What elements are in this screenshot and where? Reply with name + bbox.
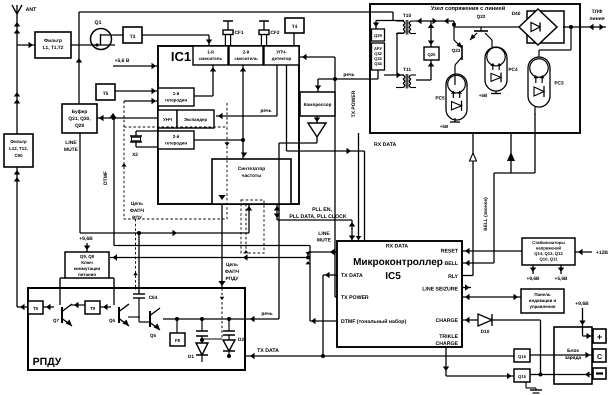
svg-text:линия: линия bbox=[589, 16, 604, 22]
svg-text:Буфер: Буфер bbox=[72, 109, 88, 115]
svg-text:IC1: IC1 bbox=[171, 49, 191, 64]
svg-text:BELL (звонок): BELL (звонок) bbox=[483, 197, 489, 231]
svg-text:частоты: частоты bbox=[242, 174, 262, 179]
svg-text:D1: D1 bbox=[188, 354, 194, 360]
svg-text:речь: речь bbox=[260, 109, 271, 114]
svg-text:T9: T9 bbox=[90, 306, 96, 311]
svg-text:Ключ: Ключ bbox=[81, 260, 93, 265]
svg-text:CHARGE: CHARGE bbox=[436, 341, 459, 347]
svg-text:CF1: CF1 bbox=[234, 30, 243, 36]
svg-text:T4: T4 bbox=[292, 24, 298, 30]
svg-text:X2: X2 bbox=[132, 152, 138, 158]
svg-text:смеситель: смеситель bbox=[234, 56, 258, 61]
svg-text:Q15: Q15 bbox=[518, 374, 527, 379]
svg-text:LINE: LINE bbox=[65, 140, 77, 146]
svg-text:РПУ: РПУ bbox=[132, 215, 143, 221]
svg-text:Q29: Q29 bbox=[374, 33, 383, 38]
svg-text:DTMF: DTMF bbox=[103, 171, 109, 185]
svg-text:управления: управления bbox=[530, 304, 556, 309]
svg-text:УПЧ-: УПЧ- bbox=[276, 50, 287, 55]
svg-text:РПДУ: РПДУ bbox=[33, 356, 62, 368]
svg-text:+9,6В: +9,6В bbox=[527, 276, 540, 282]
svg-text:+12В: +12В bbox=[596, 250, 608, 256]
svg-text:Q14, Q13, Q12: Q14, Q13, Q12 bbox=[534, 251, 563, 256]
svg-text:L12, T12,: L12, T12, bbox=[9, 146, 28, 151]
svg-text:Микроконтроллер: Микроконтроллер bbox=[353, 257, 443, 268]
svg-text:D10: D10 bbox=[481, 329, 490, 335]
svg-text:гетеродин: гетеродин bbox=[165, 141, 188, 146]
svg-text:Q7: Q7 bbox=[53, 318, 60, 323]
svg-text:1-й: 1-й bbox=[173, 91, 180, 96]
svg-text:Q22: Q22 bbox=[477, 14, 486, 19]
svg-text:LINE: LINE bbox=[318, 231, 330, 237]
svg-text:Стабилизаторы: Стабилизаторы bbox=[532, 240, 565, 245]
svg-text:+9,6В: +9,6В bbox=[79, 236, 93, 242]
svg-text:DTMF (тональный набор): DTMF (тональный набор) bbox=[341, 319, 406, 325]
svg-text:TX POWER: TX POWER bbox=[341, 295, 369, 301]
svg-text:коммутации: коммутации bbox=[74, 266, 101, 271]
svg-text:речь: речь bbox=[343, 73, 354, 78]
svg-text:ФАПЧ: ФАПЧ bbox=[130, 208, 145, 214]
svg-text:Q25: Q25 bbox=[428, 52, 437, 57]
svg-text:ANT: ANT bbox=[26, 7, 37, 13]
svg-text:PLL EN,: PLL EN, bbox=[312, 207, 332, 213]
svg-text:речь: речь bbox=[261, 312, 272, 317]
svg-text:PLL DATA, PLL CLOCK: PLL DATA, PLL CLOCK bbox=[289, 214, 347, 220]
svg-text:Q16: Q16 bbox=[518, 354, 527, 359]
svg-text:T10: T10 bbox=[403, 13, 412, 19]
svg-text:PC5: PC5 bbox=[435, 95, 445, 101]
svg-text:+5В: +5В bbox=[479, 93, 488, 98]
svg-text:Q6: Q6 bbox=[109, 318, 116, 323]
svg-text:Блок: Блок bbox=[567, 348, 579, 354]
svg-text:+9,6В: +9,6В bbox=[575, 301, 589, 307]
svg-text:смеситель: смеситель bbox=[199, 56, 223, 61]
svg-text:Фильтр: Фильтр bbox=[44, 38, 62, 44]
svg-text:TX DATA: TX DATA bbox=[257, 348, 279, 354]
svg-text:Q10, Q11: Q10, Q11 bbox=[540, 257, 559, 262]
svg-text:УНЧ: УНЧ bbox=[163, 117, 172, 122]
svg-text:D2: D2 bbox=[238, 337, 244, 343]
svg-text:+5,6 В: +5,6 В bbox=[115, 58, 130, 64]
svg-text:TX DATA: TX DATA bbox=[341, 273, 363, 279]
svg-text:Цепь: Цепь bbox=[131, 201, 143, 207]
svg-text:RX DATA: RX DATA bbox=[374, 142, 397, 148]
svg-text:Фильтр: Фильтр bbox=[10, 139, 27, 144]
svg-text:TX POWER: TX POWER bbox=[351, 90, 357, 117]
svg-text:ФАПЧ: ФАПЧ bbox=[225, 269, 240, 275]
svg-text:Компрессор: Компрессор bbox=[304, 102, 332, 107]
svg-text:CF2: CF2 bbox=[270, 30, 279, 36]
svg-text:Цепь: Цепь bbox=[226, 262, 238, 268]
svg-text:Синтезатор: Синтезатор bbox=[238, 166, 266, 172]
svg-text:T6: T6 bbox=[33, 306, 39, 311]
svg-text:IC5: IC5 bbox=[385, 271, 401, 282]
svg-text:индикации и: индикации и bbox=[529, 298, 557, 303]
svg-text:Q1: Q1 bbox=[95, 20, 102, 26]
svg-text:+: + bbox=[597, 332, 602, 342]
svg-text:CHARGE: CHARGE bbox=[436, 318, 459, 324]
svg-text:+5,6В: +5,6В bbox=[555, 276, 568, 282]
svg-text:MUTE: MUTE bbox=[64, 147, 79, 153]
svg-text:гетеродин: гетеродин bbox=[165, 98, 188, 103]
svg-text:T3: T3 bbox=[130, 34, 136, 40]
svg-text:Q23: Q23 bbox=[452, 48, 461, 53]
svg-text:Q9, Q8: Q9, Q8 bbox=[80, 254, 95, 259]
svg-text:РПДУ: РПДУ bbox=[225, 276, 239, 282]
svg-text:Q28: Q28 bbox=[75, 123, 84, 129]
svg-text:Панель: Панель bbox=[534, 292, 550, 297]
svg-text:L1, T1,T2: L1, T1,T2 bbox=[43, 45, 64, 51]
svg-text:D40: D40 bbox=[512, 11, 521, 17]
svg-text:Q31, Q30,: Q31, Q30, bbox=[68, 116, 91, 122]
svg-text:LINE SEIZURE: LINE SEIZURE bbox=[422, 287, 458, 293]
svg-text:BELL: BELL bbox=[444, 261, 458, 267]
svg-text:Экспандер: Экспандер bbox=[184, 117, 208, 122]
svg-text:PC3: PC3 bbox=[554, 81, 564, 87]
svg-text:Q5: Q5 bbox=[150, 333, 157, 338]
svg-text:питания: питания bbox=[78, 272, 96, 277]
svg-text:MUTE: MUTE bbox=[317, 238, 332, 244]
svg-text:TRIKLE: TRIKLE bbox=[439, 334, 458, 340]
svg-text:RX DATA: RX DATA bbox=[386, 244, 409, 250]
svg-text:C60: C60 bbox=[14, 153, 23, 158]
svg-text:Q34: Q34 bbox=[374, 61, 382, 66]
svg-text:T5: T5 bbox=[103, 91, 109, 97]
svg-text:С64: С64 bbox=[149, 295, 158, 301]
svg-text:заряда: заряда bbox=[565, 356, 582, 361]
svg-text:C: C bbox=[597, 354, 602, 361]
svg-text:Узел сопряжения с линией: Узел сопряжения с линией bbox=[431, 5, 506, 12]
svg-text:детектор: детектор bbox=[272, 56, 292, 61]
svg-text:T11: T11 bbox=[403, 67, 411, 73]
svg-text:F8: F8 bbox=[175, 338, 181, 343]
svg-text:2-й: 2-й bbox=[173, 134, 180, 139]
svg-text:PC4: PC4 bbox=[508, 67, 518, 73]
svg-text:2-й: 2-й bbox=[243, 50, 250, 55]
svg-text:+5В: +5В bbox=[440, 124, 449, 129]
svg-text:1-й: 1-й bbox=[207, 50, 214, 55]
svg-text:ТЛФ: ТЛФ bbox=[592, 9, 603, 15]
svg-text:напряжений: напряжений bbox=[536, 246, 562, 251]
svg-text:RESET: RESET bbox=[441, 249, 459, 255]
svg-text:RLY: RLY bbox=[448, 274, 458, 280]
